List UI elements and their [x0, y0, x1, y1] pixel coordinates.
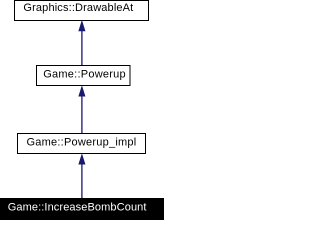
svg-text:Graphics::DrawableAt: Graphics::DrawableAt	[23, 2, 133, 14]
inheritance edge Game::Powerup_impl -> Game::Powerup	[79, 87, 85, 134]
class node Game::Powerup_impl	[18, 134, 146, 154]
class node Game::IncreaseBombCount (current class, filled black)	[0, 198, 167, 223]
inheritance edge Game::Powerup -> Graphics::DrawableAt	[79, 21, 85, 65]
class node Graphics::DrawableAt	[15, 1, 149, 21]
inheritance edge Game::IncreaseBombCount -> Game::Powerup_impl	[79, 155, 85, 198]
class node Game::Powerup	[37, 66, 131, 86]
svg-text:Game::Powerup_impl: Game::Powerup_impl	[27, 137, 137, 149]
svg-text:Game::IncreaseBombCount: Game::IncreaseBombCount	[8, 202, 147, 214]
svg-text:Game::Powerup: Game::Powerup	[43, 69, 126, 81]
